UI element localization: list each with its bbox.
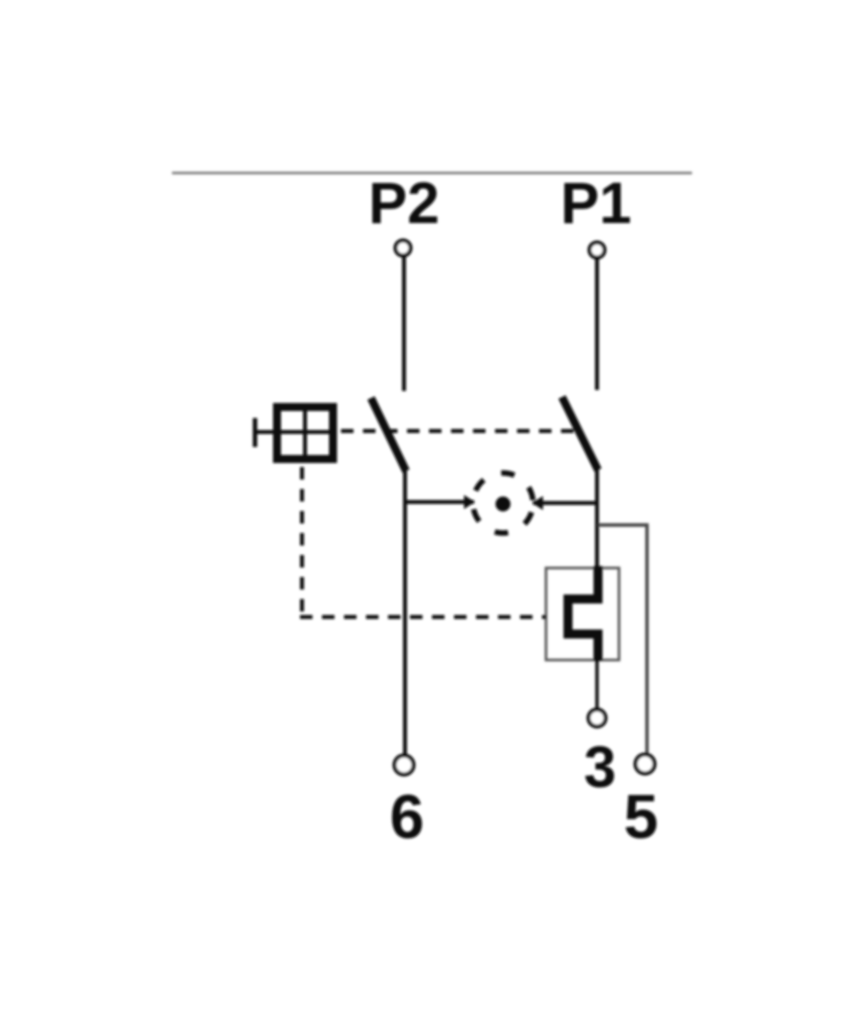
- svg-text:6: 6: [390, 783, 424, 852]
- svg-text:3: 3: [584, 735, 616, 800]
- svg-text:P1: P1: [561, 171, 632, 236]
- svg-text:P2: P2: [369, 171, 440, 236]
- svg-text:5: 5: [624, 783, 658, 852]
